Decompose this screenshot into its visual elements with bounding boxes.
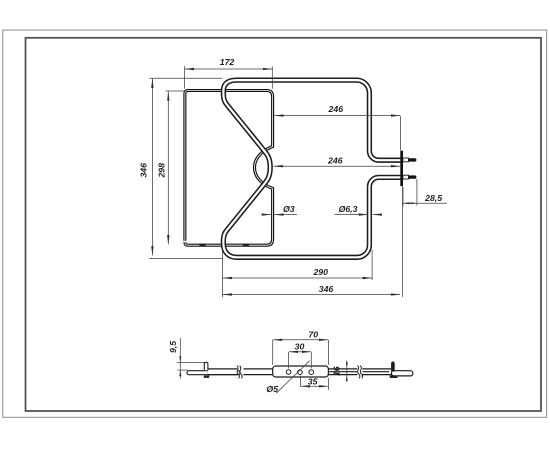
svg-text:246: 246 <box>327 155 343 165</box>
svg-text:35: 35 <box>308 377 318 387</box>
svg-text:Ø5: Ø5 <box>266 384 278 394</box>
svg-text:346: 346 <box>138 163 148 178</box>
svg-text:346: 346 <box>319 284 334 294</box>
svg-text:70: 70 <box>308 329 318 339</box>
svg-text:28,5: 28,5 <box>424 193 442 203</box>
svg-text:Ø3: Ø3 <box>283 204 295 214</box>
svg-text:Ø6,3: Ø6,3 <box>339 204 358 214</box>
svg-text:16: 16 <box>332 366 342 376</box>
svg-text:290: 290 <box>312 267 328 277</box>
svg-text:9,5: 9,5 <box>168 341 178 353</box>
svg-text:298: 298 <box>157 163 167 179</box>
svg-text:246: 246 <box>328 104 344 114</box>
svg-text:30: 30 <box>295 341 305 351</box>
svg-text:172: 172 <box>220 57 235 67</box>
